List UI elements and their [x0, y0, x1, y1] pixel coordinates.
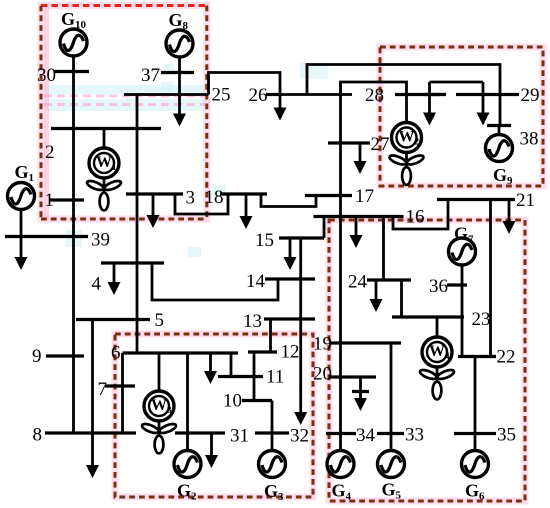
svg-text:8: 8	[33, 425, 43, 446]
generator G3	[259, 451, 286, 478]
wire 12-11-10 vertical	[253, 352, 256, 401]
svg-text:38: 38	[520, 129, 539, 150]
svg-text:22: 22	[497, 347, 516, 368]
wire 19 to G5	[390, 343, 393, 450]
svg-text:17: 17	[355, 186, 374, 207]
bus 33	[377, 432, 404, 435]
svg-text:34: 34	[356, 425, 376, 446]
wire G8 down with load arrow	[178, 57, 181, 114]
svg-text:9: 9	[32, 346, 42, 367]
svg-text:36: 36	[429, 276, 448, 297]
bus 13	[264, 317, 315, 320]
wind farm W2	[388, 123, 424, 185]
tick on load shaft	[424, 93, 446, 96]
bus 15	[279, 236, 324, 239]
load at 4	[113, 263, 116, 283]
area 4 box	[115, 334, 313, 497]
svg-text:3: 3	[186, 188, 196, 209]
bus 5	[76, 318, 150, 321]
load at 21	[508, 200, 511, 223]
load at 20 with tick	[359, 377, 362, 399]
wind farm W1	[86, 148, 122, 210]
svg-text:11: 11	[266, 367, 284, 388]
svg-text:G8: G8	[169, 10, 189, 32]
bus 18	[220, 192, 267, 195]
svg-text:5: 5	[155, 310, 165, 331]
bus 29	[456, 93, 519, 96]
bus 8	[45, 431, 136, 434]
svg-text:6: 6	[111, 343, 121, 364]
wire W4 stem	[436, 317, 439, 338]
wire 26-29 up-over	[307, 65, 500, 126]
bus 37	[161, 71, 194, 74]
load at 18	[245, 194, 248, 217]
bus 32	[255, 431, 289, 434]
pink line area1 a	[44, 95, 205, 98]
wind farm W3	[141, 391, 177, 453]
wire 3-4-5-6 vertical	[136, 95, 139, 354]
svg-text:12: 12	[281, 342, 300, 363]
svg-text:29: 29	[521, 85, 540, 106]
bus 38	[487, 124, 511, 127]
cyan fleck near 39	[66, 230, 82, 247]
load at 24	[375, 280, 378, 300]
cyan band area1 lower	[45, 99, 205, 111]
bus 23 bar	[392, 315, 464, 318]
wire 24-23	[400, 280, 403, 317]
cyan fleck near 26 corner	[300, 63, 328, 79]
bus 24	[367, 278, 411, 281]
wire G1 down to bus 39	[20, 209, 23, 257]
generator G1	[8, 183, 35, 210]
wire 25-26 jog	[209, 73, 281, 95]
generator G5	[378, 451, 405, 478]
svg-text:G7: G7	[454, 224, 474, 246]
wire G10 to bus 8 spine	[72, 56, 75, 433]
bus 14	[265, 277, 315, 280]
svg-text:39: 39	[91, 230, 110, 251]
svg-text:30: 30	[37, 65, 56, 86]
svg-text:15: 15	[255, 230, 274, 251]
generator G4	[327, 451, 354, 478]
wire 4-14 jog	[152, 263, 278, 300]
wire 28-29 upper left segment to W2	[341, 82, 407, 122]
wire 2-25 line	[124, 93, 209, 96]
generator G7	[449, 238, 476, 265]
load arrow at 29	[482, 82, 485, 113]
svg-text:18: 18	[205, 187, 224, 208]
bus 31	[175, 431, 225, 434]
load arrow left of 29	[428, 82, 431, 113]
svg-text:G6: G6	[465, 481, 485, 503]
pink line area1 b	[44, 103, 205, 106]
generator G2	[174, 451, 201, 478]
svg-text:28: 28	[365, 85, 384, 106]
bus 21	[437, 198, 515, 201]
cyan band area1 upper	[45, 85, 205, 94]
bus 26 tick	[266, 93, 281, 96]
svg-text:16: 16	[406, 207, 425, 228]
cyan fleck near 15	[188, 247, 201, 257]
wire 10 to G3	[271, 401, 274, 451]
wire 6-11	[230, 353, 233, 377]
area 1 right border	[205, 6, 208, 220]
load at 27	[359, 143, 362, 162]
pink band inside area1 left	[44, 7, 49, 218]
bus 27	[328, 141, 370, 144]
wire 17-18 jog	[261, 194, 316, 207]
svg-text:G3: G3	[264, 481, 284, 503]
wire 26-28	[280, 93, 352, 96]
bus 10	[242, 399, 272, 402]
wire 6 to G2	[186, 353, 189, 450]
pink box area 2	[380, 47, 543, 186]
wire W3 stem	[158, 353, 161, 392]
wire 16-24	[382, 217, 385, 281]
svg-text:26: 26	[249, 85, 268, 106]
svg-text:10: 10	[223, 391, 242, 412]
wire W1 stem	[103, 129, 106, 149]
generator G9	[486, 135, 513, 162]
svg-text:32: 32	[290, 426, 309, 447]
svg-text:1: 1	[45, 190, 55, 211]
svg-text:13: 13	[243, 311, 262, 332]
svg-text:33: 33	[405, 425, 424, 446]
wind farm W4	[419, 337, 455, 399]
area 1 left border	[40, 6, 43, 220]
load at 16	[355, 217, 358, 237]
svg-text:27: 27	[371, 134, 390, 155]
svg-text:19: 19	[313, 334, 332, 355]
bus 1	[50, 198, 84, 201]
wire 22-35-G6	[474, 357, 477, 451]
load at 8	[91, 433, 94, 466]
wire 3-18 U link	[175, 194, 228, 214]
svg-text:23: 23	[472, 309, 491, 330]
svg-text:G2: G2	[177, 481, 197, 503]
bus 36	[447, 283, 467, 286]
area 3 box	[329, 220, 525, 501]
cyan fleck near 18	[212, 185, 226, 197]
bus 35	[454, 432, 496, 435]
wire 16-21 jog	[393, 200, 448, 230]
bus 12	[248, 350, 277, 353]
bus 16	[314, 215, 404, 218]
generator G10	[60, 29, 87, 56]
bus 7	[105, 384, 135, 387]
bus 34	[326, 432, 356, 435]
pink box area 3	[329, 220, 525, 501]
svg-text:G9: G9	[493, 165, 513, 187]
wire 21-22	[489, 200, 492, 357]
bus 17	[305, 194, 352, 197]
load at 6	[209, 353, 212, 372]
svg-text:2: 2	[45, 142, 55, 163]
svg-text:G1: G1	[15, 162, 35, 184]
svg-text:G5: G5	[382, 480, 402, 502]
bus 4	[101, 261, 164, 264]
svg-text:21: 21	[516, 190, 535, 211]
wire 13-12	[269, 319, 272, 352]
load at 39 arrowhead	[15, 257, 28, 270]
wire 5 to 8	[91, 320, 94, 434]
bus 39	[5, 235, 88, 238]
svg-text:4: 4	[92, 274, 102, 295]
svg-text:25: 25	[212, 85, 231, 106]
pink box area 4	[115, 334, 313, 497]
area 1 bottom border	[41, 218, 207, 221]
bus 22	[458, 355, 496, 358]
wire 28 down to G4 long vertical	[339, 82, 342, 450]
svg-text:31: 31	[230, 426, 249, 447]
svg-text:24: 24	[348, 272, 368, 293]
svg-text:35: 35	[497, 425, 516, 446]
bus 20	[329, 375, 376, 378]
cyan fleck near 37	[164, 64, 174, 73]
svg-text:37: 37	[141, 65, 160, 86]
wire 38 bar to G9	[498, 126, 501, 136]
area 1 top border (red)	[41, 4, 208, 7]
wire 15-16 link	[323, 217, 326, 239]
area 2 box	[380, 47, 543, 186]
bus 3	[126, 192, 183, 195]
bus 28	[395, 93, 440, 96]
svg-text:14: 14	[246, 271, 266, 292]
pink box area 1	[41, 6, 207, 220]
svg-text:20: 20	[313, 364, 332, 385]
bus 9	[46, 354, 84, 357]
bus 19	[329, 341, 401, 344]
bus 11	[218, 375, 263, 378]
svg-text:7: 7	[98, 379, 108, 400]
bus 6	[123, 351, 239, 354]
load at 3	[152, 194, 155, 216]
wire 6-7-8 vertical	[121, 353, 124, 433]
load at 15	[289, 238, 292, 258]
bus 30	[55, 70, 90, 73]
wire 28-29 upper right segment	[430, 81, 484, 84]
svg-text:G4: G4	[332, 481, 352, 503]
generator G6	[462, 451, 489, 478]
wire 15-14-13 vertical with long load arrow	[299, 238, 302, 413]
wire G7-36-23-22	[461, 265, 464, 357]
svg-text:G10: G10	[61, 9, 87, 31]
bus 2 bar	[51, 127, 161, 130]
generator G8	[166, 30, 193, 57]
load at 26	[279, 95, 282, 109]
load at 31	[210, 433, 213, 455]
